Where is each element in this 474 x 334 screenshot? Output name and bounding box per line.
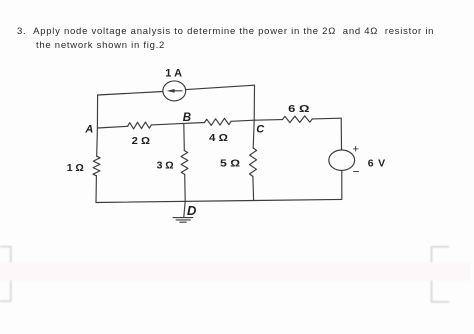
wire: right-upper vertical to node C (253, 85, 255, 120)
wire: bottom wire (96, 199, 342, 202)
svg-text:D: D (187, 203, 197, 218)
resistor 6Ω zigzag (282, 116, 312, 123)
svg-text:3 Ω: 3 Ω (157, 159, 174, 171)
svg-text:A: A (84, 124, 93, 136)
svg-text:4 Ω: 4 Ω (209, 132, 228, 144)
wire: top wire right of current source (186, 85, 255, 89)
resistor 5Ω zigzag (250, 148, 257, 176)
resistor 3Ω zigzag (181, 151, 188, 175)
wire: left vertical bottom (95, 176, 97, 203)
svg-text:5 Ω: 5 Ω (220, 157, 240, 169)
current source arrowhead (167, 89, 175, 93)
wire: 2ohm to node B (151, 123, 204, 125)
wire: top wire left of current source (98, 92, 163, 96)
svg-text:6 Ω: 6 Ω (288, 103, 309, 115)
decorative right bracket (432, 247, 450, 302)
svg-text:1 Ω: 1 Ω (67, 162, 84, 174)
wire: node A to 2ohm (97, 126, 128, 128)
wire: right vertical to voltage source top (340, 118, 342, 150)
problem text line 1 (17, 26, 434, 37)
wire: 5ohm to bottom wire (252, 176, 255, 200)
resistor 4Ω zigzag (205, 118, 232, 125)
svg-text:+: + (353, 144, 359, 156)
ground stub at node D (184, 201, 185, 217)
resistor 1Ω zigzag (93, 156, 100, 176)
wire: 4ohm to node C (231, 120, 254, 121)
svg-text:−: − (353, 165, 360, 179)
svg-text:C: C (256, 124, 265, 136)
problem text line 2 (36, 40, 165, 51)
svg-text:1: 1 (165, 68, 171, 80)
svg-text:6 V: 6 V (368, 157, 385, 169)
svg-text:A: A (174, 68, 182, 80)
svg-text:2 Ω: 2 Ω (132, 135, 150, 147)
ground symbol (173, 218, 193, 223)
decorative left bracket (0, 247, 11, 302)
resistor 2Ω zigzag (128, 122, 152, 129)
current source arrow (170, 90, 182, 92)
label 1 A (165, 68, 182, 80)
wire: node B vertical to 3ohm (183, 123, 186, 150)
wire: node C vertical to 5ohm (253, 120, 254, 148)
wire: left vertical top (node A branch) (96, 95, 99, 156)
svg-text:B: B (183, 112, 191, 124)
voltage source V1 6V body (329, 150, 355, 170)
wire: node C to 6ohm (254, 119, 282, 122)
decorative pink band (0, 263, 470, 281)
wire: voltage source bottom to bottom wire (341, 170, 343, 199)
wire: 6ohm to right vertical (312, 117, 341, 120)
wire: 3ohm to bottom wire (184, 174, 187, 201)
current source I1 1A body (163, 81, 186, 101)
